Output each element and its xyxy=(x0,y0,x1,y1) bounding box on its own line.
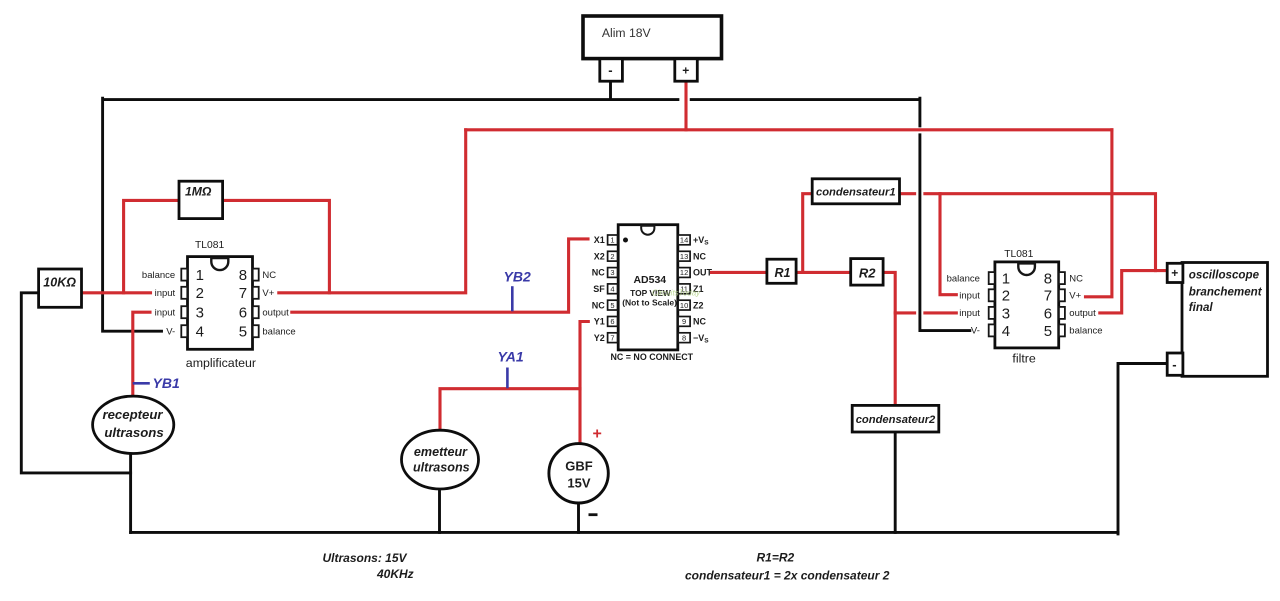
wire 10KOhm left to recepteur ground node xyxy=(21,293,130,473)
U1 pin 3 input xyxy=(155,305,204,322)
capacitor condensateur2 xyxy=(852,405,939,432)
svg-text:R1: R1 xyxy=(775,266,791,280)
svg-text:5: 5 xyxy=(1044,323,1052,340)
wire AD534 Y1 pin6 down to GBF plus xyxy=(580,322,588,445)
wire R1 to R2 xyxy=(799,271,849,274)
U2 pin1 index dot xyxy=(623,238,628,243)
svg-text:V-: V- xyxy=(166,327,175,338)
svg-text:Z2: Z2 xyxy=(693,300,704,310)
svg-text:GBF: GBF xyxy=(565,459,593,474)
svg-text:5: 5 xyxy=(239,324,247,341)
svg-text:14: 14 xyxy=(680,236,688,245)
svg-text:6: 6 xyxy=(239,305,247,322)
svg-text:OUT: OUT xyxy=(693,268,713,278)
svg-text:condensateur2: condensateur2 xyxy=(856,414,936,426)
U1 pin 8 NC xyxy=(239,267,277,284)
svg-text:NC: NC xyxy=(693,317,706,327)
U2 pin 7 Y2 xyxy=(594,333,618,343)
power supply Alim 18V xyxy=(583,16,722,59)
wire +18V red rail xyxy=(466,128,1112,131)
svg-text:NC: NC xyxy=(592,300,605,310)
wire AD534 OUT pin12 to R1 xyxy=(712,271,767,274)
svg-text:1: 1 xyxy=(196,267,204,284)
svg-text:ultrasons: ultrasons xyxy=(104,425,163,440)
wire recepteur ultrasons to bottom ground rail xyxy=(129,453,132,533)
op-amp U1 TL081 amplificateur xyxy=(142,240,296,370)
svg-text:9: 9 xyxy=(682,317,686,326)
U1 pin 6 output xyxy=(239,305,289,322)
svg-text:10: 10 xyxy=(680,301,688,310)
multiplier U2 AD534 xyxy=(592,225,713,363)
wire 1MOhm left to input node junction xyxy=(124,200,179,292)
op-amp U3 TL081 filtre xyxy=(947,249,1103,366)
wire emetteur ultrasons to ground rail xyxy=(438,492,441,533)
U2 pin 3 NC xyxy=(592,268,618,278)
U3 pin 7 V+ xyxy=(1044,288,1082,305)
svg-text:NC: NC xyxy=(693,251,706,261)
svg-text:5: 5 xyxy=(610,301,614,310)
wire junction down to filtre input pin2 xyxy=(940,194,956,295)
svg-text:+: + xyxy=(593,426,602,443)
svg-text:R2: R2 xyxy=(859,266,876,281)
wire condensateur2 to ground rail xyxy=(894,432,897,533)
svg-text:-: - xyxy=(1172,357,1176,372)
wire GBF minus to ground rail xyxy=(577,503,580,533)
U1 pin 4 V- xyxy=(166,324,204,341)
oscilloscope plus terminal xyxy=(1167,263,1183,282)
svg-text:2: 2 xyxy=(1002,288,1010,305)
svg-text:amplificateur: amplificateur xyxy=(186,356,256,370)
svg-text:R1=R2: R1=R2 xyxy=(757,551,795,565)
wire R2 right down to condensateur2 xyxy=(885,272,896,405)
svg-text:NC: NC xyxy=(1069,273,1083,284)
svg-text:balance: balance xyxy=(947,273,980,284)
svg-text:4: 4 xyxy=(1002,323,1010,340)
svg-text:8: 8 xyxy=(1044,271,1052,288)
svg-text:15V: 15V xyxy=(567,476,590,491)
svg-text:12: 12 xyxy=(680,268,688,277)
svg-text:7: 7 xyxy=(1044,288,1052,305)
U2 pin 11 Z1 xyxy=(678,284,703,294)
wire red rail down to filtre V+ pin7 xyxy=(1086,130,1112,297)
svg-text:final: final xyxy=(1189,301,1214,314)
svg-text:CircuitsToday: CircuitsToday xyxy=(652,289,701,298)
U3 pin 4 V- xyxy=(971,323,1010,340)
svg-text:3: 3 xyxy=(196,305,204,322)
U2 pin 2 X2 xyxy=(594,251,618,261)
svg-text:X2: X2 xyxy=(594,251,605,261)
U2 pin 14 +VS xyxy=(678,235,709,247)
svg-text:1: 1 xyxy=(1002,271,1010,288)
node YA1 xyxy=(498,349,524,388)
svg-text:filtre: filtre xyxy=(1012,352,1036,366)
Alim minus terminal xyxy=(600,59,623,81)
svg-text:YB2: YB2 xyxy=(504,268,531,284)
svg-text:7: 7 xyxy=(610,333,614,342)
wire filtre output pin6 to oscilloscope plus terminal xyxy=(1100,271,1166,313)
svg-text:emetteur: emetteur xyxy=(414,445,468,459)
svg-text:8: 8 xyxy=(239,267,247,284)
U2 pin 9 NC xyxy=(678,317,706,327)
svg-text:V+: V+ xyxy=(1069,291,1081,302)
wire top ground rail (gap at red crossing) xyxy=(104,98,919,101)
svg-text:balance: balance xyxy=(262,327,295,338)
svg-text:Y1: Y1 xyxy=(594,317,605,327)
svg-text:AD534: AD534 xyxy=(633,274,666,286)
svg-text:condensateur1: condensateur1 xyxy=(816,187,896,199)
wire condensateur1 left down to R1-R2 node xyxy=(803,194,811,273)
wire amplificateur output pin6 to AD534 X1 pin1 xyxy=(292,239,588,312)
U2 pin 8 -VS xyxy=(678,333,709,345)
svg-text:40KHz: 40KHz xyxy=(376,567,414,581)
wire condensateur1 right toward oscilloscope plus xyxy=(901,194,1155,271)
resistor 1MOhm xyxy=(179,181,223,218)
svg-text:YB1: YB1 xyxy=(153,375,180,391)
wire red rail down to amplificateur V+ pin7 xyxy=(279,130,466,293)
U2 pin 12 OUT xyxy=(678,268,712,278)
U3 pin 2 input xyxy=(959,288,1010,305)
GBF signal generator xyxy=(549,444,608,503)
svg-text:V-: V- xyxy=(971,326,980,337)
svg-text:NC: NC xyxy=(592,268,605,278)
U1 pin 2 input xyxy=(155,285,204,302)
svg-text:input: input xyxy=(959,308,980,319)
resistor R2 xyxy=(851,259,883,286)
svg-text:X1: X1 xyxy=(594,235,605,245)
svg-text:V+: V+ xyxy=(262,288,274,299)
svg-text:condensateur1 = 2x condensateu: condensateur1 = 2x condensateur 2 xyxy=(685,568,890,582)
wire bottom rail up to oscilloscope minus terminal xyxy=(1118,364,1168,534)
oscilloscope box xyxy=(1182,263,1268,377)
svg-text:13: 13 xyxy=(680,252,688,261)
U3 pin 8 NC xyxy=(1044,271,1083,288)
recepteur ultrasons transducer xyxy=(93,396,174,453)
wire Alim plus terminal down to +18V red rail xyxy=(684,80,687,130)
svg-text:2: 2 xyxy=(610,252,614,261)
node YB2 xyxy=(504,268,531,310)
svg-text:recepteur: recepteur xyxy=(102,407,163,422)
U2 pin 1 X1 xyxy=(594,235,618,245)
wire 10KOhm right to amplificateur input pin2 xyxy=(82,291,151,294)
svg-text:10KΩ: 10KΩ xyxy=(43,276,76,290)
svg-text:balance: balance xyxy=(142,270,175,281)
resistor R1 xyxy=(767,259,796,283)
U2 pin 4 SF xyxy=(593,284,617,294)
svg-text:NC: NC xyxy=(262,270,276,281)
svg-text:ultrasons: ultrasons xyxy=(413,461,470,475)
wire 1MOhm right down to V+ wire junction xyxy=(223,200,330,292)
svg-text:4: 4 xyxy=(610,285,614,294)
U3 pin 5 balance xyxy=(1044,323,1103,340)
U3 pin 3 input xyxy=(959,305,1010,322)
svg-text:Y2: Y2 xyxy=(594,333,605,343)
svg-text:3: 3 xyxy=(610,268,614,277)
wire ground rail right drop to filtre V- pin4 (gap at red rail) xyxy=(920,98,970,330)
svg-text:6: 6 xyxy=(610,317,614,326)
svg-text:+: + xyxy=(1171,266,1178,280)
wire YA1 node to emetteur ultrasons xyxy=(440,389,580,434)
svg-text:Ultrasons: 15V: Ultrasons: 15V xyxy=(323,551,408,565)
capacitor condensateur1 xyxy=(812,179,899,204)
svg-text:(Not to Scale): (Not to Scale) xyxy=(622,297,677,307)
svg-text:output: output xyxy=(262,308,289,319)
svg-text:2: 2 xyxy=(196,285,204,302)
svg-text:+: + xyxy=(682,63,689,77)
svg-text:YA1: YA1 xyxy=(498,349,524,365)
U2 pin 13 NC xyxy=(678,251,706,261)
oscilloscope minus terminal xyxy=(1167,353,1183,375)
svg-text:oscilloscope: oscilloscope xyxy=(1189,268,1260,281)
svg-text:input: input xyxy=(155,288,176,299)
svg-text:-: - xyxy=(608,63,612,78)
svg-text:SF: SF xyxy=(593,284,605,294)
U1 pin 7 V+ xyxy=(239,285,275,302)
svg-text:input: input xyxy=(155,308,176,319)
U3 pin 6 output xyxy=(1044,305,1096,322)
U2 pin 6 Y1 xyxy=(594,317,618,327)
U1 pin 5 balance xyxy=(239,324,296,341)
wire bottom ground rail xyxy=(131,531,1118,534)
svg-text:balance: balance xyxy=(1069,326,1102,337)
emetteur ultrasons transducer xyxy=(402,430,479,489)
wire Alim minus terminal to ground rail xyxy=(609,80,612,98)
wire R2-condensateur2 node to filtre input pin3 (gap at black wire) xyxy=(895,311,956,314)
svg-text:4: 4 xyxy=(196,324,204,341)
wire amplificateur input pin3 down to recepteur ultrasons xyxy=(133,312,150,396)
svg-text:1MΩ: 1MΩ xyxy=(185,184,212,198)
resistor 10KOhm xyxy=(39,269,82,307)
svg-text:output: output xyxy=(1069,308,1096,319)
svg-text:Alim 18V: Alim 18V xyxy=(602,26,652,40)
U1 pin 1 balance xyxy=(142,267,204,284)
svg-text:NC = NO CONNECT: NC = NO CONNECT xyxy=(611,352,694,362)
GBF minus polarity label xyxy=(589,513,598,516)
U2 pin 5 NC xyxy=(592,300,618,310)
svg-text:input: input xyxy=(959,291,980,302)
svg-text:7: 7 xyxy=(239,285,247,302)
svg-text:8: 8 xyxy=(682,333,686,342)
U2 pin 10 Z2 xyxy=(678,300,703,310)
node YB1 xyxy=(134,375,180,391)
svg-text:TL081: TL081 xyxy=(1004,249,1033,260)
svg-text:branchement: branchement xyxy=(1189,286,1263,299)
svg-text:6: 6 xyxy=(1044,305,1052,322)
Alim plus terminal xyxy=(675,59,698,81)
svg-text:3: 3 xyxy=(1002,305,1010,322)
wire ground rail left drop to amplificateur V- pin4 xyxy=(103,98,162,331)
svg-text:1: 1 xyxy=(610,236,614,245)
U3 pin 1 balance xyxy=(947,271,1011,288)
svg-text:TL081: TL081 xyxy=(195,240,224,251)
